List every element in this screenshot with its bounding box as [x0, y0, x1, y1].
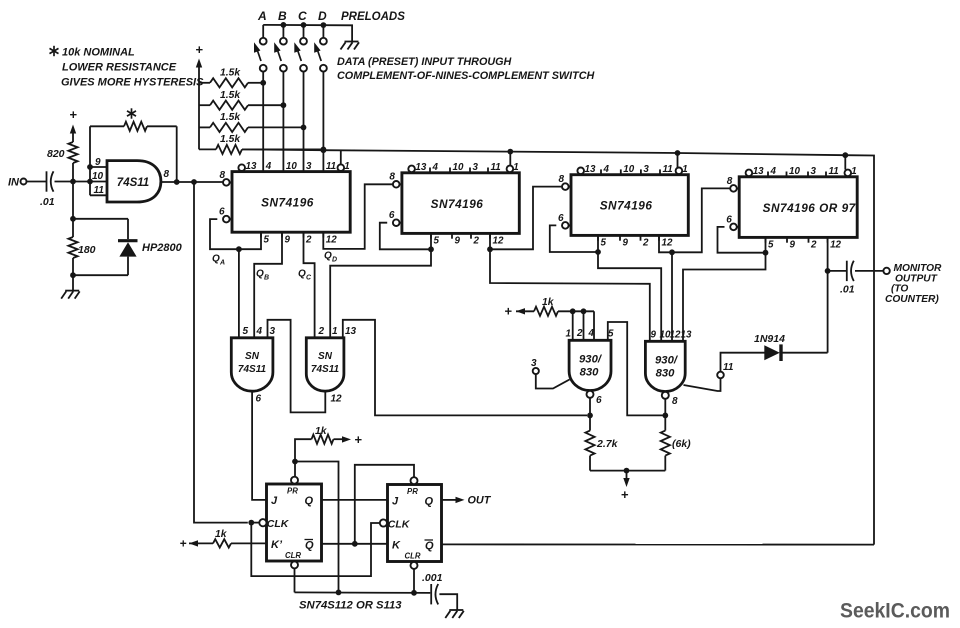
U2 bottom tick x303.5 — [303, 232, 305, 237]
wire: U2 pin12 cascade to U3 pin8 — [323, 184, 393, 249]
wire: U4 QA to gate D pin10 — [598, 252, 661, 341]
svg-text:6: 6 — [256, 394, 262, 405]
svg-text:DATA (PRESET) INPUT THROUGH: DATA (PRESET) INPUT THROUGH — [337, 56, 512, 68]
svg-text:5: 5 — [434, 236, 440, 247]
svg-text:1: 1 — [332, 326, 338, 337]
svg-text:Q: Q — [298, 269, 306, 280]
node: R3 junction — [301, 125, 307, 131]
svg-text:CLR: CLR — [405, 552, 421, 561]
switch SB stub — [282, 25, 284, 38]
wire: bus to U3 pin1 — [509, 152, 511, 166]
svg-text:6: 6 — [558, 213, 564, 224]
U4 pin 1 bubble — [676, 168, 683, 175]
wire: U8 out stub — [589, 398, 591, 416]
node: pullup dot 2 — [581, 308, 587, 314]
U4 pin 8 bubble — [562, 183, 571, 190]
node: R4 junction — [321, 147, 327, 153]
svg-text:10: 10 — [92, 171, 104, 182]
svg-text:CLR: CLR — [285, 551, 301, 560]
svg-text:10: 10 — [789, 166, 800, 177]
svg-text:.01: .01 — [40, 196, 55, 208]
svg-text:4: 4 — [603, 164, 610, 175]
svg-text:2: 2 — [576, 328, 583, 339]
label U7 SN 74S11 — [311, 351, 340, 375]
svg-text:B: B — [264, 275, 269, 282]
svg-text:Q: Q — [305, 540, 314, 552]
svg-text:9: 9 — [285, 234, 291, 245]
wire: node to diode — [73, 219, 128, 239]
svg-text:1: 1 — [851, 166, 856, 177]
switch SC stub — [303, 25, 305, 38]
svg-text:B: B — [278, 9, 287, 23]
svg-text:SN74196: SN74196 — [600, 199, 653, 213]
supply + (930 pullup) — [504, 304, 512, 319]
node: clear bus dot 1 — [336, 590, 342, 596]
node: QA dot U4 — [595, 249, 601, 255]
node: U8 output dot — [587, 413, 593, 419]
svg-text:+: + — [504, 304, 512, 319]
wire: switch C to counter — [303, 72, 305, 172]
svg-text:180: 180 — [78, 244, 96, 256]
node: bus dot U3 — [507, 149, 513, 155]
wire: switch A to counter — [262, 72, 264, 172]
svg-text:8: 8 — [220, 170, 226, 181]
svg-text:6: 6 — [596, 395, 602, 406]
node: bias node — [70, 216, 76, 222]
U4 pin 6 label — [558, 213, 564, 224]
U7 output label 12 — [331, 394, 343, 405]
U3 pin 6 label — [389, 210, 395, 221]
resistor R9 2.7k — [585, 415, 594, 470]
svg-text:9: 9 — [95, 157, 101, 168]
U4 bottom pin labels — [601, 238, 673, 249]
U3 pin 8 label — [389, 172, 395, 183]
U7 input labels 2 1 13 — [318, 326, 357, 337]
and-gate U7 SN74S11 body — [306, 338, 344, 391]
diode D1 HP2800 — [118, 241, 138, 276]
wire: feedback right — [147, 126, 177, 182]
svg-text:6: 6 — [389, 210, 395, 221]
U3 pin 13 bubble — [408, 166, 415, 173]
wire: PR node to bubble — [294, 462, 296, 477]
svg-text:5: 5 — [264, 234, 270, 245]
svg-text:SeekIC.com: SeekIC.com — [840, 600, 950, 623]
node: output dot B (clock tap) — [191, 179, 197, 185]
U2 bottom tick x261 — [260, 232, 262, 237]
svg-text:930/: 930/ — [579, 354, 603, 366]
watermark SeekIC.com — [840, 600, 950, 623]
U6 output label 6 — [256, 394, 262, 405]
svg-text:1k: 1k — [215, 529, 228, 540]
svg-text:.001: .001 — [422, 572, 443, 584]
svg-text:SN: SN — [245, 351, 260, 362]
svg-text:12: 12 — [670, 330, 681, 341]
U1 pin 9 label — [95, 157, 101, 168]
U2 pin 8 bubble — [223, 179, 232, 186]
svg-text:GIVES MORE HYSTERESIS: GIVES MORE HYSTERESIS — [61, 77, 204, 89]
svg-text:OUT: OUT — [468, 495, 492, 507]
label 74S11 — [117, 177, 149, 189]
U4 top tick x601 — [600, 169, 602, 174]
label U6 SN 74S11 — [238, 351, 267, 375]
U1 output wire — [161, 181, 223, 183]
wire: U3 pin12 cascade to U4 pin8 — [490, 187, 562, 250]
wire: U5 pin5 QA — [718, 227, 766, 253]
switch SA stub — [262, 25, 264, 38]
svg-text:13: 13 — [585, 164, 596, 175]
svg-text:D: D — [318, 9, 327, 23]
svg-text:3: 3 — [811, 166, 817, 177]
node: ground node — [70, 272, 76, 278]
svg-text:12: 12 — [326, 234, 337, 245]
wire: U10 Q to U11 J — [322, 499, 388, 501]
resistor R4 1.5k label — [220, 134, 241, 145]
svg-text:8: 8 — [727, 176, 733, 187]
wire: U3 QA to gate C pin1 — [330, 249, 431, 337]
resistor R1 1.5k label — [220, 67, 241, 78]
U3 top tick x430 — [429, 168, 431, 173]
wire: U11 Q to OUT — [442, 497, 465, 503]
capacitor C3 .001 — [431, 584, 438, 604]
U9 output label 8 — [672, 396, 678, 407]
wire: tap to gate D pin12 — [671, 252, 673, 341]
label U8 930/830 — [579, 354, 603, 379]
svg-text:+: + — [195, 42, 203, 57]
label 820 — [47, 148, 65, 160]
wire: U2 pin2 QC to gate B pin2 — [304, 232, 315, 338]
U4 pin 13 bubble — [577, 168, 584, 175]
wire: U7 pin13 to gate C out — [343, 320, 587, 416]
label .01 — [40, 196, 55, 208]
U2 pin 1 bubble — [338, 164, 345, 171]
switch SA wiper arrow — [254, 42, 261, 61]
label U9 930/830 — [655, 355, 679, 380]
U1 pin 11 label — [94, 185, 105, 196]
resistor R3 1.5k — [199, 123, 304, 132]
resistor R12 1k (K) — [189, 539, 267, 547]
svg-text:+: + — [179, 537, 186, 551]
wire: node down — [72, 182, 74, 219]
node: R1 junction — [260, 80, 266, 86]
svg-text:+: + — [621, 487, 629, 502]
U4 pin 6 bubble — [562, 222, 571, 229]
U2 pin 6 bubble — [223, 216, 232, 223]
svg-text:CLK: CLK — [267, 518, 290, 530]
svg-text:1N914: 1N914 — [754, 333, 785, 345]
svg-text:A: A — [257, 9, 267, 23]
wire: PR node to clear bus — [295, 462, 339, 593]
svg-text:J: J — [392, 496, 399, 508]
switch SA top contact — [260, 38, 267, 45]
svg-text:Q: Q — [212, 254, 220, 265]
svg-text:1k: 1k — [315, 426, 328, 437]
node: QA dot U5 — [763, 250, 769, 256]
U4 top pin labels — [585, 164, 688, 175]
svg-text:8: 8 — [672, 396, 678, 407]
note text line 3 — [61, 77, 204, 89]
svg-text:5: 5 — [768, 240, 774, 251]
U4 top tick x660 — [659, 169, 661, 174]
U5 pin 6 label — [726, 214, 732, 225]
switch SB bottom contact — [280, 65, 287, 72]
svg-text:Q: Q — [425, 540, 434, 552]
U11 CLR bubble — [411, 562, 418, 569]
counter U5 SN74196 OR 97 box — [739, 177, 857, 238]
switch SC bottom contact — [300, 65, 307, 72]
U4 bottom tick x640.5 — [640, 235, 642, 240]
svg-text:K’: K’ — [271, 539, 283, 551]
counter U5 label — [763, 201, 857, 215]
U2 bottom tick x282 — [281, 232, 283, 237]
resistor R3 1.5k label — [220, 112, 241, 123]
svg-text:Q: Q — [256, 269, 264, 280]
note text line 1 — [62, 47, 135, 59]
U8 input labels — [566, 328, 615, 340]
counter U4 label — [600, 199, 653, 213]
svg-text:J: J — [271, 495, 278, 507]
svg-text:5: 5 — [243, 326, 249, 337]
wire: diode cathode — [782, 352, 828, 354]
label 180 — [78, 244, 96, 256]
wire: U10 CLR to bus — [294, 568, 296, 592]
node: output dot A — [174, 179, 180, 185]
wire: gate C pin2 — [583, 311, 585, 340]
U3 bottom tick x452 — [451, 233, 453, 238]
U3 top tick x470 — [469, 168, 471, 173]
U4 bottom tick x659 — [658, 235, 660, 240]
terminal IN — [8, 177, 27, 189]
U3 pin 8 bubble — [393, 181, 402, 188]
U5 pin 8 bubble — [730, 185, 739, 192]
svg-text:Q: Q — [324, 251, 332, 262]
svg-text:(TO: (TO — [891, 284, 908, 295]
wire: U4 pin5 QA — [550, 225, 598, 252]
svg-text:2: 2 — [305, 234, 312, 245]
U9 pin11 wire diag — [684, 378, 721, 391]
svg-text:IN: IN — [8, 177, 20, 189]
wire: U11 Qbar feedback — [442, 543, 875, 545]
wire: bus to U2 pin1 — [340, 150, 342, 164]
svg-text:3: 3 — [531, 358, 537, 369]
svg-text:12: 12 — [331, 394, 343, 405]
switch SC wiper arrow — [294, 42, 301, 61]
svg-text:9: 9 — [623, 238, 629, 249]
U3 top pin labels — [415, 162, 518, 173]
U4 bottom tick x598 — [597, 235, 599, 240]
label 2.7k — [596, 438, 619, 450]
U3 top tick x488 — [487, 168, 489, 173]
U10 PR bubble — [291, 477, 298, 484]
svg-text:8: 8 — [164, 169, 170, 180]
label PRELOADS — [341, 11, 405, 23]
U5 pin 13 bubble — [746, 170, 753, 177]
node: QA dot U3 — [428, 246, 434, 252]
flip-flop U11 box — [388, 485, 442, 562]
wire: clock to FF1 CLK — [194, 182, 248, 523]
svg-text:A: A — [219, 260, 225, 267]
svg-text:K: K — [392, 540, 401, 552]
wire: cap to node — [55, 181, 91, 183]
svg-text:COMPLEMENT-OF-NINES-COMPLEMENT: COMPLEMENT-OF-NINES-COMPLEMENT SWITCH — [337, 70, 595, 82]
svg-text:1.5k: 1.5k — [220, 112, 241, 123]
svg-text:830: 830 — [656, 368, 676, 380]
node: bus dot U5 — [842, 152, 848, 158]
node: cascade dot (gate D pin12 tap) — [669, 249, 675, 255]
supply arrow up — [196, 59, 202, 150]
label QD (U2) — [324, 251, 337, 264]
counter U2 label — [261, 196, 314, 210]
U6 input labels 5 4 3 — [243, 326, 276, 337]
supply + (divider) — [621, 471, 630, 502]
U1 pin 10 label — [92, 171, 104, 182]
switch SD stub — [322, 25, 324, 38]
wire: QA to gate A pin5 — [238, 249, 240, 338]
U1 pin 11 wire — [90, 167, 107, 195]
U8 pin3 terminal — [533, 368, 539, 374]
svg-text:9: 9 — [790, 240, 796, 251]
svg-text:10: 10 — [286, 161, 297, 172]
svg-text:1: 1 — [566, 329, 571, 340]
U5 top tick x826 — [825, 172, 827, 177]
U3 pin 6 bubble — [393, 219, 402, 226]
counter U2 SN74196 box — [232, 172, 350, 233]
U10 CLR bubble — [291, 561, 298, 568]
svg-text:+: + — [69, 107, 77, 122]
svg-text:4: 4 — [588, 328, 595, 339]
wire: Qbar to U11 PR — [355, 465, 414, 544]
U9 output bubble — [662, 392, 669, 399]
wire: monitor to cap — [828, 270, 846, 272]
wire: U3 pin5 QA — [380, 223, 431, 250]
note text line 2 — [62, 62, 177, 74]
svg-text:4: 4 — [256, 326, 263, 337]
supply + (820) — [69, 107, 77, 134]
counter U3 SN74196 box — [402, 173, 519, 234]
svg-text:13: 13 — [753, 166, 764, 177]
U5 pin 6 bubble — [730, 224, 739, 231]
U8 pin3 label — [531, 358, 537, 369]
node: R2 junction — [281, 102, 287, 108]
note: 10k nominal asterisk — [49, 46, 58, 56]
node: bus dot C — [301, 22, 307, 28]
U9 pin11 label — [723, 362, 734, 373]
wire: U11 CLR to bus — [413, 569, 415, 593]
resistor R4 1.5k — [199, 145, 323, 154]
U8 output label 6 — [596, 395, 602, 406]
svg-text:830: 830 — [580, 367, 600, 379]
svg-text:10: 10 — [623, 164, 634, 175]
wire: preload bus — [263, 25, 352, 41]
svg-text:+: + — [354, 432, 362, 447]
U5 pin 1 bubble — [845, 170, 852, 177]
svg-text:4: 4 — [770, 166, 777, 177]
U11 PR bubble — [411, 477, 418, 484]
svg-text:C: C — [298, 9, 307, 23]
svg-text:1k: 1k — [542, 297, 555, 308]
label SN74S112 OR S113 — [299, 600, 402, 612]
svg-text:SN74196: SN74196 — [431, 197, 484, 211]
svg-text:13: 13 — [681, 330, 692, 341]
svg-text:13: 13 — [345, 326, 357, 337]
note: data preset line2 — [337, 70, 595, 82]
U5 top pin labels — [753, 166, 857, 177]
counter U3 label — [431, 197, 484, 211]
node: pin9 dot — [87, 164, 93, 170]
svg-text:74S11: 74S11 — [117, 177, 149, 189]
U5 bottom tick x787 — [786, 237, 788, 242]
wire: U5 pin12 down — [827, 237, 829, 271]
nand-gate U8 930/830 body — [569, 340, 611, 390]
switch SD bottom contact — [320, 65, 327, 72]
svg-text:2: 2 — [473, 236, 480, 247]
resistor R11 1k (PR) — [295, 435, 351, 462]
label * (feedback) — [127, 108, 136, 118]
U2 pin 8 label — [220, 170, 226, 181]
label 1N914 — [754, 333, 785, 345]
svg-text:8: 8 — [559, 174, 565, 185]
node: bus dot U4 — [675, 150, 681, 156]
U1 pin 8 label — [164, 169, 170, 180]
svg-text:13: 13 — [246, 161, 257, 172]
svg-text:3: 3 — [306, 161, 312, 172]
switch labels A B C D — [257, 9, 327, 23]
wire: U4 pin12 cascade to U5 pin8 — [659, 188, 730, 252]
supply + (1.5k pullups) — [195, 42, 203, 57]
U10 labels — [267, 487, 314, 561]
U11 CLK bubble — [380, 519, 387, 526]
U5 bottom tick x808.5 — [808, 237, 810, 242]
wire: switch B to counter — [282, 72, 284, 172]
U8 output bubble — [587, 391, 594, 398]
U3 bottom tick x490 — [489, 233, 491, 238]
node: monitor dot — [825, 268, 831, 274]
label 1k (930) — [542, 297, 555, 308]
U4 top tick x640.9 — [640, 169, 642, 174]
U9 input labels — [651, 330, 692, 341]
wire: clear bus — [295, 591, 431, 594]
wire: U6 output to FF1 J — [252, 391, 266, 500]
ground G3 (.001) — [445, 610, 464, 618]
terminal MONITOR OUTPUT — [883, 268, 889, 274]
supply + (K) — [179, 537, 186, 551]
svg-text:SN74196 OR 97: SN74196 OR 97 — [763, 201, 857, 215]
wire: pin3 to U8 — [536, 374, 570, 388]
capacitor C1 .01 — [47, 171, 54, 191]
svg-text:(6k): (6k) — [672, 438, 691, 450]
svg-text:Q: Q — [305, 495, 314, 507]
resistor R2 1.5k label — [220, 90, 241, 101]
flip-flop U10 box — [267, 484, 322, 561]
svg-text:12: 12 — [662, 238, 673, 249]
U9 pin11 terminal — [717, 372, 724, 379]
U4 pin 8 label — [559, 174, 565, 185]
nand-gate U9 930/830 body — [645, 341, 685, 391]
wire: U5 QA to gate D pin13 — [683, 253, 766, 342]
switch SB wiper arrow — [274, 42, 281, 61]
svg-text:1: 1 — [513, 162, 518, 173]
U2 pin 13 bubble — [238, 164, 245, 171]
svg-text:2: 2 — [318, 326, 325, 337]
svg-text:PR: PR — [287, 487, 298, 496]
wire: U6 pin3 to U7 out — [268, 320, 326, 413]
svg-text:4: 4 — [265, 161, 272, 172]
U3 bottom pin labels — [434, 236, 504, 247]
U5 bottom tick x765.5 — [765, 237, 767, 242]
svg-text:11: 11 — [723, 362, 734, 373]
switch SD top contact — [320, 38, 327, 45]
wire: bus to U4 pin1 — [677, 153, 679, 168]
svg-text:LOWER RESISTANCE: LOWER RESISTANCE — [62, 62, 177, 74]
